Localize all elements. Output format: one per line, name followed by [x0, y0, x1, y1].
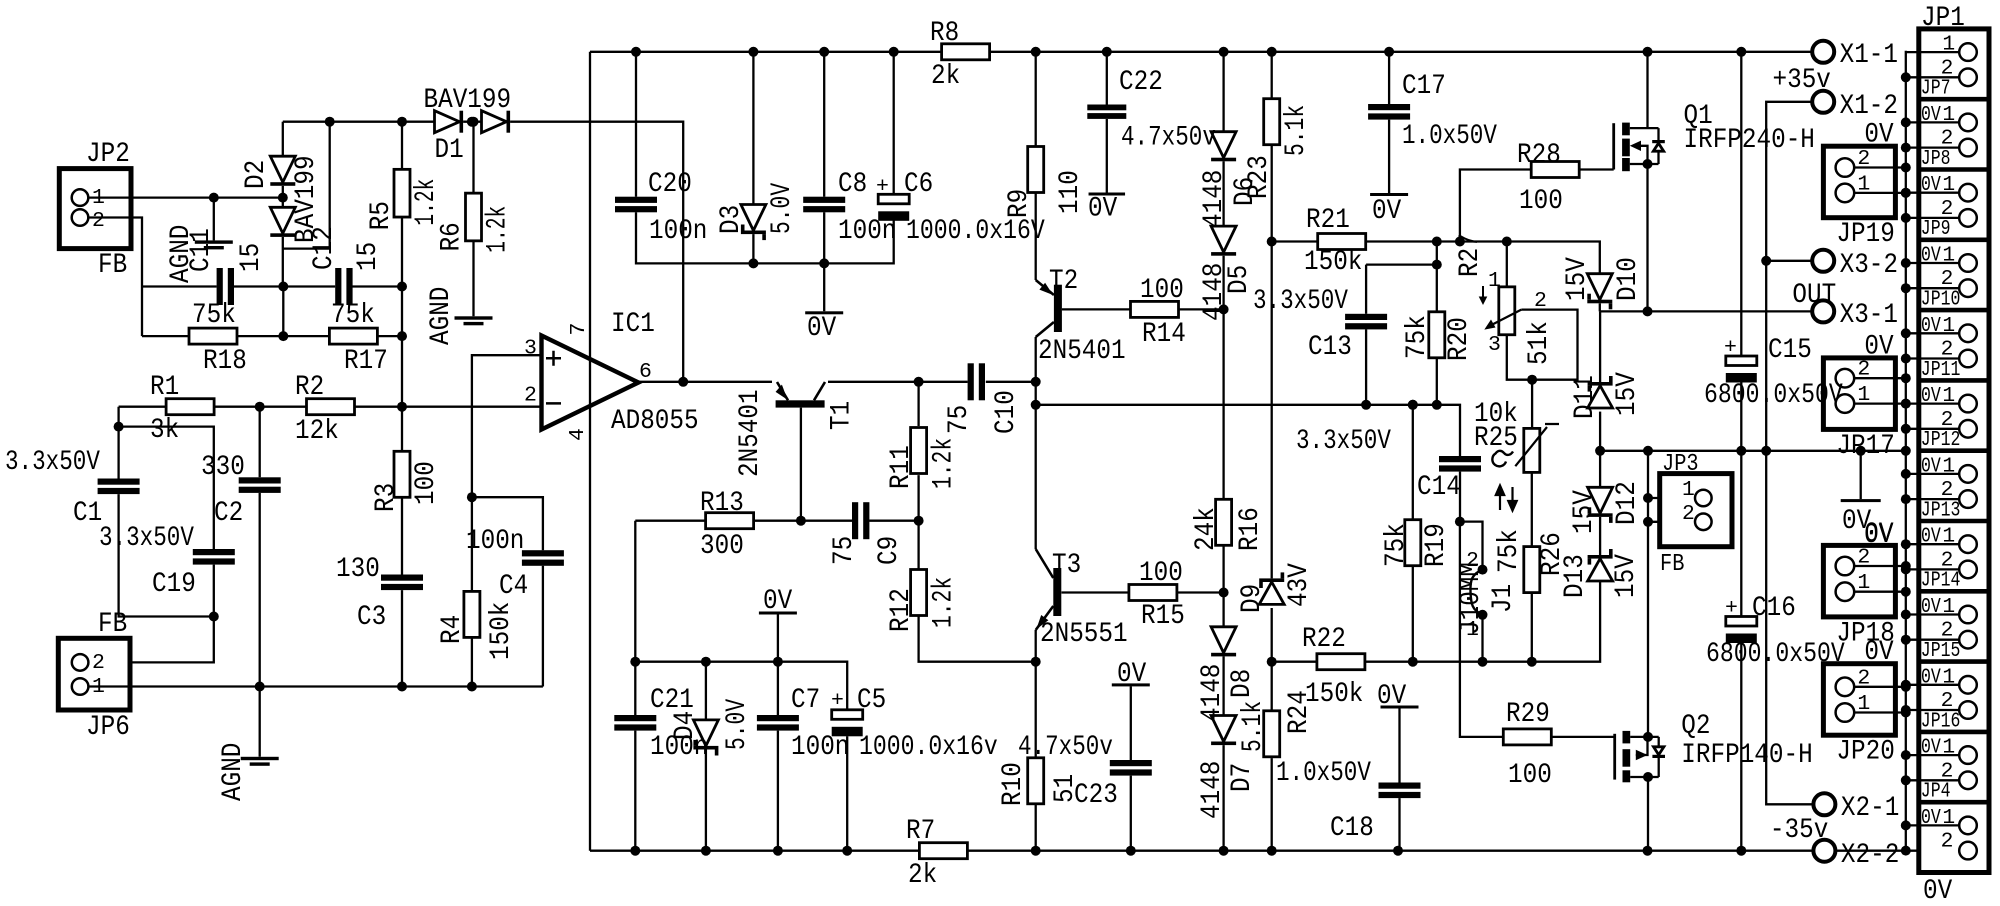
wire C16 bottom — [1740, 643, 1742, 851]
wire C1 bottom — [119, 494, 214, 616]
svg-text:JP6: JP6 — [86, 712, 130, 743]
svg-text:4148: 4148 — [1197, 761, 1228, 819]
svg-text:0V: 0V — [1921, 314, 1941, 338]
wire R13-C9 — [753, 520, 852, 522]
wire C14 bottom — [1459, 472, 1461, 522]
wire C4 top — [472, 497, 543, 550]
junction — [1761, 256, 1771, 266]
svg-text:AD8055: AD8055 — [611, 406, 699, 437]
pad X1-2 — [1812, 91, 1834, 113]
wire J1 bottom — [1481, 615, 1483, 662]
svg-text:0V: 0V — [1921, 173, 1941, 197]
svg-text:1: 1 — [1942, 103, 1955, 127]
svg-text:7: 7 — [567, 323, 591, 336]
junction — [467, 117, 477, 127]
wire mid bus to C14 — [1036, 405, 1460, 456]
svg-text:0V: 0V — [1921, 736, 1941, 760]
svg-text:JP9: JP9 — [1921, 217, 1951, 241]
junction — [469, 117, 479, 127]
JP1 section JP15 pins — [1959, 606, 1977, 649]
svg-text:+35v: +35v — [1773, 65, 1831, 96]
resistor R28 — [1531, 162, 1579, 178]
svg-text:2: 2 — [524, 384, 537, 408]
wire to C19 — [119, 427, 214, 549]
resistor R15 — [1129, 585, 1177, 601]
wire D11 bottom — [1599, 412, 1601, 451]
svg-text:43V: 43V — [1284, 563, 1315, 607]
junction — [114, 422, 124, 432]
wire 0V bus — [1905, 51, 1907, 847]
wire R23 top — [1271, 52, 1273, 100]
svg-text:R19: R19 — [1421, 523, 1452, 567]
diode D11 — [1588, 376, 1613, 408]
svg-text:12k: 12k — [295, 416, 339, 447]
svg-text:6800.0x50V: 6800.0x50V — [1706, 639, 1845, 670]
JP1 section JP13 pins — [1959, 465, 1977, 508]
capacitor C4 — [522, 550, 564, 566]
svg-text:X2-2: X2-2 — [1841, 840, 1899, 871]
svg-text:R3: R3 — [371, 483, 402, 512]
wire JP3 bus — [1647, 451, 1649, 737]
wire T3 base — [1062, 591, 1130, 593]
capacitor C20 — [615, 197, 657, 213]
wire D2 top — [282, 122, 284, 157]
svg-text:D1: D1 — [435, 135, 464, 166]
svg-text:2: 2 — [1466, 549, 1479, 573]
svg-text:C6: C6 — [904, 169, 933, 200]
wire T1 to C10 — [828, 381, 968, 383]
transistor T3 — [1036, 549, 1062, 630]
junction — [630, 846, 1746, 856]
svg-text:X3-2: X3-2 — [1840, 250, 1898, 281]
wire D1 mid — [463, 121, 481, 123]
R27 adjust arrow — [1479, 286, 1488, 305]
svg-text:1: 1 — [1942, 595, 1955, 619]
resistor R5 — [394, 169, 410, 217]
svg-text:100n: 100n — [838, 216, 896, 247]
wire to AGND — [213, 198, 215, 241]
svg-text:15V: 15V — [1612, 372, 1643, 416]
connector JP17 — [1823, 358, 1895, 430]
svg-text:100: 100 — [1508, 760, 1552, 791]
svg-text:R25: R25 — [1474, 423, 1518, 454]
wire D1 to out — [510, 122, 683, 382]
svg-text:C4: C4 — [499, 571, 528, 602]
capacitor C2 — [239, 477, 281, 493]
svg-text:FB: FB — [98, 609, 127, 640]
junction — [1901, 373, 1911, 408]
svg-text:300: 300 — [700, 531, 744, 562]
svg-text:R8: R8 — [930, 18, 959, 49]
ground AGND — [195, 240, 233, 249]
resistor R27 — [1499, 287, 1515, 335]
svg-text:0V: 0V — [1921, 384, 1941, 408]
JP1 section JP4 pins — [1959, 746, 1977, 789]
svg-text:4148: 4148 — [1199, 170, 1230, 228]
diode D13 — [1588, 549, 1613, 581]
svg-text:2: 2 — [1534, 289, 1547, 313]
wire stub — [1647, 736, 1649, 738]
svg-text:1: 1 — [1942, 384, 1955, 408]
svg-text:JP8: JP8 — [1921, 147, 1951, 171]
junction — [1455, 517, 1488, 620]
wire top rail left — [590, 51, 942, 53]
junction — [278, 282, 407, 292]
wire R12 bottom — [919, 616, 1036, 662]
svg-text:JP15: JP15 — [1921, 639, 1961, 663]
svg-text:D8: D8 — [1227, 669, 1258, 698]
wire C19 bottom to JP6.2 — [88, 565, 213, 663]
junction — [914, 377, 924, 387]
junction — [796, 516, 806, 526]
svg-text:C8: C8 — [838, 169, 867, 200]
diode D4 — [693, 720, 718, 756]
wire R13 left drop — [634, 521, 636, 662]
wire C2 top — [259, 407, 261, 478]
svg-text:2k: 2k — [931, 61, 960, 92]
junction — [1643, 493, 1653, 527]
svg-text:150k: 150k — [486, 602, 517, 660]
svg-text:R11: R11 — [886, 445, 917, 489]
capacitor C5 — [832, 710, 863, 737]
svg-text:1: 1 — [1857, 172, 1870, 196]
JP1 separators — [1919, 99, 1989, 802]
wire D4 bottom — [705, 750, 707, 851]
junction — [1267, 657, 1277, 667]
junction — [467, 492, 477, 691]
svg-text:110: 110 — [1055, 170, 1086, 214]
resistor R16 — [1216, 499, 1232, 545]
svg-text:5.1k: 5.1k — [1238, 701, 1269, 752]
svg-text:2N5401: 2N5401 — [1038, 336, 1126, 367]
svg-text:J1: J1 — [1488, 584, 1519, 613]
svg-text:D12: D12 — [1612, 481, 1643, 525]
wire R5 bottom bus — [401, 217, 403, 452]
svg-text:+: + — [1724, 336, 1737, 360]
svg-text:100: 100 — [1139, 558, 1183, 589]
svg-text:D10: D10 — [1613, 257, 1644, 301]
wire R28 left — [1460, 170, 1532, 242]
svg-text:R22: R22 — [1302, 624, 1346, 655]
wire top rail right — [990, 51, 1813, 53]
wire D9 bottom — [1271, 608, 1273, 710]
svg-text:0V: 0V — [1923, 876, 1953, 906]
wire R11-R12 — [917, 475, 919, 569]
ground 0V right — [1841, 499, 1881, 502]
svg-text:1: 1 — [1942, 806, 1955, 830]
wire C21-C5 row — [635, 662, 847, 710]
pad X2-2 — [1813, 840, 1835, 862]
wire R20 bottom — [1436, 358, 1438, 405]
wire R10 bottom — [1035, 804, 1037, 850]
svg-text:JP7: JP7 — [1921, 77, 1951, 101]
capacitor C1 — [98, 479, 140, 495]
svg-text:2: 2 — [1857, 666, 1870, 690]
svg-text:JP3: JP3 — [1662, 451, 1699, 478]
svg-text:JP11: JP11 — [1921, 358, 1961, 382]
svg-text:R6: R6 — [437, 222, 468, 251]
capacitor C15 — [1726, 356, 1757, 383]
wire JP2.1 to D2 node — [88, 196, 282, 198]
svg-text:JP17: JP17 — [1836, 431, 1894, 462]
svg-text:150k: 150k — [1305, 679, 1363, 710]
wire D3 bottom — [752, 234, 754, 263]
resistor R4 — [464, 591, 480, 637]
wire D5 to R16 — [1222, 256, 1224, 500]
svg-text:130: 130 — [336, 554, 380, 585]
wire C20 top — [635, 52, 637, 197]
wire C2 bottom — [259, 493, 261, 757]
svg-text:2N5551: 2N5551 — [1040, 619, 1128, 650]
wire R23 to D9 — [1271, 144, 1273, 578]
wire C13 bottom — [1365, 329, 1367, 404]
junction — [278, 331, 407, 341]
svg-text:0V: 0V — [1864, 637, 1894, 668]
svg-text:75k: 75k — [331, 300, 375, 331]
wire C7 bottom — [777, 731, 779, 851]
capacitor C11 — [217, 268, 234, 305]
svg-text:D5: D5 — [1224, 265, 1255, 294]
wire C16 top — [1740, 451, 1742, 617]
junction — [630, 657, 783, 667]
junction — [1432, 237, 1512, 247]
capacitor C13 — [1345, 314, 1387, 330]
connector JP3 — [1660, 474, 1732, 547]
diode D1b — [482, 111, 511, 133]
jumper J1 — [1470, 570, 1482, 615]
wire R29 to gate — [1551, 736, 1614, 738]
junction — [397, 117, 407, 412]
svg-text:OUT: OUT — [1792, 280, 1836, 311]
junction — [1267, 237, 1277, 247]
wire C5 bottom — [846, 736, 848, 850]
svg-text:X3-1: X3-1 — [1840, 300, 1898, 331]
JP1 section JP14 pins — [1959, 535, 1977, 578]
svg-text:1: 1 — [1857, 383, 1870, 407]
wire Q1 source to OUT — [1646, 164, 1648, 311]
junction — [1527, 657, 1537, 667]
wire X1-2 vertical — [1766, 102, 1813, 805]
JP1 section JP10 pins — [1959, 254, 1977, 297]
diode D9 — [1259, 572, 1284, 604]
wire R9 to T2 — [1035, 193, 1037, 280]
resistor R26 — [1524, 547, 1540, 593]
svg-text:JP16: JP16 — [1921, 709, 1961, 733]
svg-text:R20: R20 — [1444, 317, 1475, 361]
wire C4 bottom — [542, 566, 544, 687]
diode D3 — [741, 205, 766, 241]
svg-text:AGND: AGND — [426, 287, 457, 345]
wire D2 mid — [282, 186, 284, 207]
wire OUT — [1600, 310, 1813, 312]
wire C12 right — [352, 285, 402, 287]
svg-text:15: 15 — [236, 243, 267, 272]
svg-text:2N5401: 2N5401 — [735, 389, 766, 477]
svg-text:1: 1 — [92, 675, 105, 699]
svg-text:1: 1 — [1942, 244, 1955, 268]
svg-text:4148: 4148 — [1197, 664, 1228, 722]
wire bottom rail left — [590, 850, 920, 852]
svg-text:6800.0x50V: 6800.0x50V — [1704, 380, 1843, 411]
wire JP3 pin1 — [1648, 497, 1695, 499]
wire C8 bottom 0V — [823, 212, 825, 311]
diode D6 — [1211, 132, 1236, 162]
wire R9 top — [1035, 52, 1037, 147]
connector JP18 — [1823, 545, 1895, 617]
svg-text:D2: D2 — [241, 160, 272, 189]
svg-text:2: 2 — [1857, 546, 1870, 570]
wire R24 bottom — [1271, 758, 1273, 851]
transistor T1 — [776, 382, 825, 521]
svg-text:4.7x50v: 4.7x50v — [1018, 732, 1113, 763]
svg-text:75k: 75k — [1381, 523, 1412, 567]
wire R14 right — [1179, 308, 1224, 310]
wire C15 top — [1740, 52, 1742, 356]
resistor R8 — [942, 44, 990, 60]
wire op-amp +in — [472, 355, 542, 591]
svg-text:R4: R4 — [437, 615, 468, 644]
wire C13 top — [1365, 265, 1367, 314]
wire R18 left — [142, 335, 189, 337]
wire J1 top — [1460, 522, 1483, 570]
ground 0V C8 — [805, 311, 843, 314]
svg-text:0V: 0V — [1921, 454, 1941, 478]
resistor R1 — [166, 399, 214, 415]
svg-text:75: 75 — [829, 536, 860, 565]
svg-text:R21: R21 — [1306, 205, 1350, 236]
wire Q2 drain — [1647, 777, 1649, 851]
wire JP19 pin2 — [1854, 166, 1906, 168]
svg-text:JP14: JP14 — [1921, 569, 1961, 593]
wire R22 left — [1272, 661, 1316, 663]
svg-text:C14: C14 — [1417, 472, 1461, 503]
svg-text:C17: C17 — [1402, 71, 1446, 102]
wire JP17 pin2 — [1854, 377, 1906, 379]
wire C17 top — [1388, 52, 1390, 104]
junction — [1031, 657, 1041, 667]
svg-text:1.2k: 1.2k — [482, 206, 513, 253]
svg-text:100: 100 — [1140, 275, 1184, 306]
junction — [209, 193, 219, 203]
svg-text:X1-2: X1-2 — [1840, 91, 1898, 122]
wire 0V gnd — [1860, 451, 1862, 499]
svg-text:0V: 0V — [1377, 681, 1407, 712]
svg-text:T3: T3 — [1052, 550, 1081, 581]
svg-text:1.2k: 1.2k — [929, 577, 960, 628]
svg-text:D3: D3 — [716, 205, 747, 234]
svg-text:R10: R10 — [998, 762, 1029, 806]
JP1 section JP12 pins — [1959, 395, 1977, 438]
svg-text:0V: 0V — [1921, 244, 1941, 268]
connector JP6 — [58, 638, 130, 710]
svg-text:0V: 0V — [1921, 806, 1941, 830]
wire D7 bottom — [1222, 745, 1224, 851]
junction — [1901, 163, 1911, 198]
connector JP19 — [1823, 146, 1895, 218]
svg-text:JP2: JP2 — [86, 139, 130, 170]
svg-text:IRFP240-H: IRFP240-H — [1684, 125, 1815, 156]
svg-text:R1: R1 — [150, 372, 179, 403]
wire JP20 pin2 — [1854, 686, 1906, 688]
JP1 section JP9 pins — [1959, 184, 1977, 227]
wire bottom rail right — [967, 850, 1814, 852]
ground AGND C2 — [241, 757, 279, 766]
svg-text:51k: 51k — [1524, 321, 1555, 365]
svg-text:T2: T2 — [1049, 266, 1078, 297]
svg-text:1: 1 — [1942, 314, 1955, 338]
resistor R25 — [1524, 428, 1540, 472]
svg-text:1: 1 — [92, 186, 105, 210]
svg-text:FB: FB — [98, 250, 127, 281]
capacitor C12 — [335, 268, 352, 305]
capacitor C19 — [193, 549, 235, 565]
capacitor C6 — [878, 194, 909, 221]
transistor Q2 — [1615, 731, 1665, 782]
svg-text:1.0x50V: 1.0x50V — [1276, 758, 1371, 789]
svg-text:C12: C12 — [309, 226, 340, 270]
wire R28 to gate — [1579, 168, 1614, 170]
svg-text:0V: 0V — [763, 586, 793, 617]
wire R11 top — [917, 382, 919, 426]
svg-text:X1-1: X1-1 — [1840, 40, 1898, 71]
svg-text:2: 2 — [1857, 147, 1870, 171]
svg-text:75k: 75k — [192, 300, 236, 331]
wire 0V row — [1600, 450, 1906, 452]
svg-text:AGND: AGND — [218, 743, 249, 801]
capacitor C8 — [803, 197, 845, 213]
svg-text:D11: D11 — [1570, 375, 1601, 419]
svg-text:3.3x50V: 3.3x50V — [5, 447, 100, 478]
junction — [1527, 375, 1537, 385]
svg-text:2: 2 — [1941, 830, 1954, 854]
JP1 section last pins — [1959, 817, 1977, 860]
junction — [1361, 400, 1442, 410]
capacitor C3 — [381, 575, 423, 591]
svg-text:R9: R9 — [1004, 189, 1035, 218]
wire C23 top — [1130, 686, 1132, 760]
svg-text:1000.0x16v: 1000.0x16v — [859, 732, 998, 763]
diode D2b — [270, 207, 295, 237]
junction — [1901, 682, 1911, 718]
wire T2 collector down — [1035, 337, 1037, 549]
svg-text:0V: 0V — [1921, 595, 1941, 619]
svg-text:C5: C5 — [857, 685, 886, 716]
svg-text:1: 1 — [1942, 525, 1955, 549]
svg-text:JP10: JP10 — [1921, 288, 1961, 312]
junction — [1643, 732, 1653, 782]
svg-text:100: 100 — [1519, 186, 1563, 217]
capacitor C14 — [1439, 456, 1481, 472]
ground 0V C22 — [1089, 193, 1126, 196]
junction — [1643, 159, 1653, 316]
diode D8 — [1211, 627, 1236, 657]
junction — [1432, 260, 1442, 270]
wire C3 bottom — [401, 590, 403, 686]
wire C9 right — [869, 520, 918, 522]
resistor R23 — [1264, 99, 1280, 145]
svg-text:1.0x50V: 1.0x50V — [1402, 121, 1497, 152]
svg-text:15V: 15V — [1569, 490, 1600, 534]
svg-text:IC1: IC1 — [611, 309, 655, 340]
capacitor C10 — [968, 363, 985, 400]
svg-text:C10: C10 — [991, 390, 1022, 434]
capacitor C21 — [614, 715, 656, 731]
svg-text:0V: 0V — [1921, 665, 1941, 689]
connector JP2 — [59, 169, 131, 249]
junction — [914, 516, 924, 526]
svg-text:15V: 15V — [1562, 257, 1593, 301]
svg-text:D9: D9 — [1237, 584, 1268, 613]
